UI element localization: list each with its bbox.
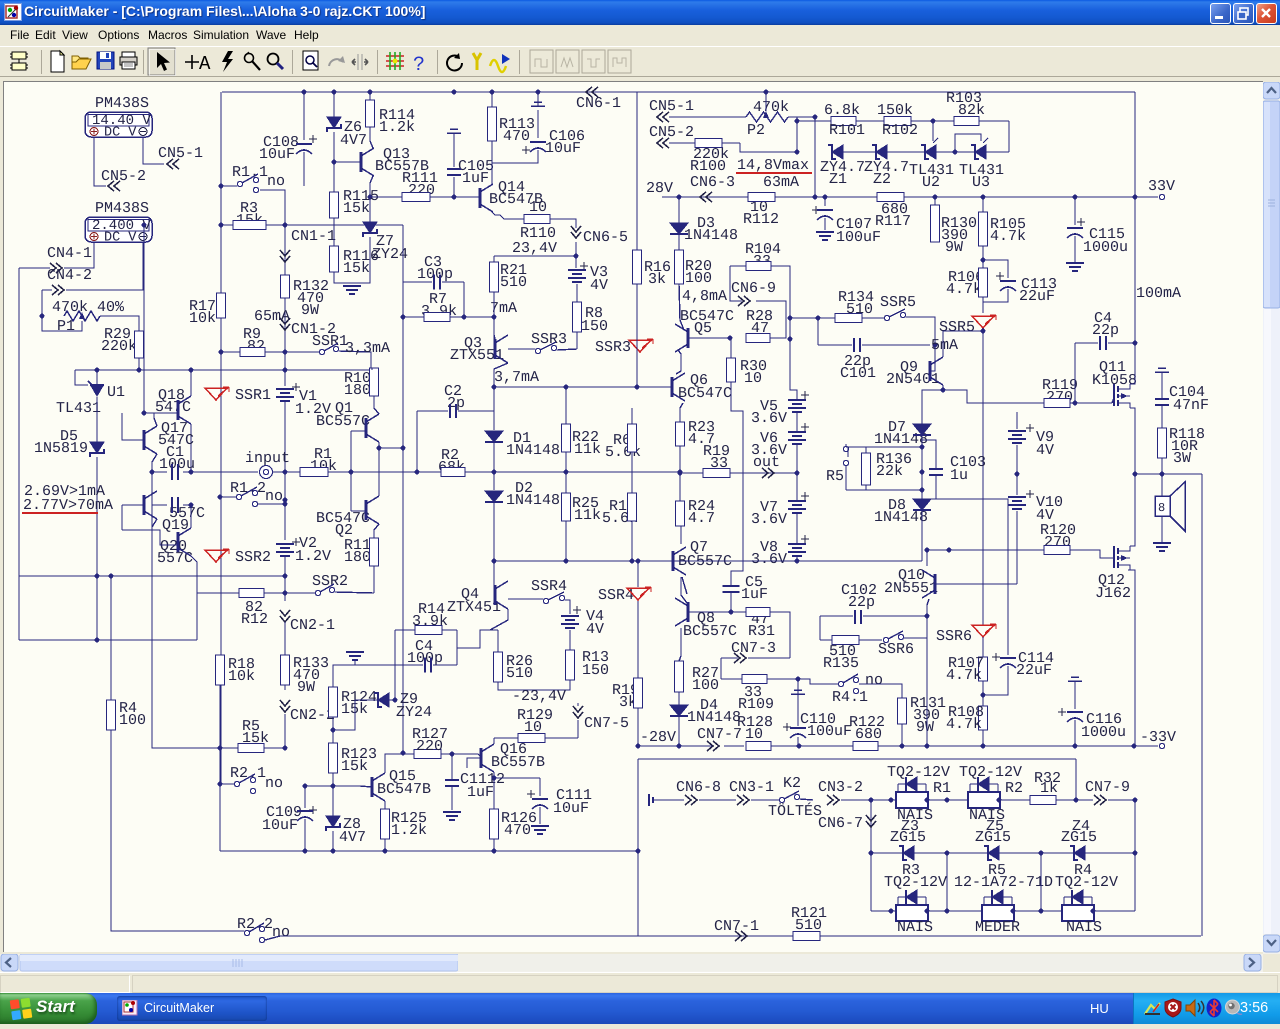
wire Z8	[332, 814, 334, 816]
wire Q16 base	[467, 758, 481, 768]
svg-text:SSR1: SSR1	[235, 387, 271, 404]
svg-text:10: 10	[744, 370, 762, 387]
wire D4 bottom	[678, 716, 680, 746]
wire meter1 left lead	[94, 137, 106, 186]
svg-text:C101: C101	[840, 365, 876, 382]
svg-text:100p: 100p	[417, 266, 453, 283]
wire Z9 right	[394, 665, 396, 700]
wire x197 down	[191, 556, 197, 593]
svg-text:R1: R1	[933, 780, 951, 797]
svg-text:BC557C: BC557C	[316, 413, 370, 430]
wire Vstack top feed	[790, 339, 797, 400]
wire R1.2	[220, 496, 236, 498]
svg-text:R2: R2	[1005, 780, 1023, 797]
svg-text:NAIS: NAIS	[897, 919, 933, 936]
svg-text:R112: R112	[743, 211, 779, 228]
svg-text:100uF: 100uF	[807, 723, 852, 740]
svg-text:100mA: 100mA	[1136, 285, 1181, 302]
svg-text:DC V: DC V	[104, 231, 137, 246]
svg-text:R2.1: R2.1	[230, 765, 266, 782]
wire R26 top	[497, 630, 499, 652]
wire Q6 emitter	[680, 403, 683, 422]
split arrows	[352, 54, 368, 70]
wire R104 right	[771, 266, 790, 339]
svg-text:DC V: DC V	[104, 126, 137, 141]
wire zener chain y152	[740, 143, 797, 152]
relay R2 coil	[968, 792, 1000, 808]
wire V2 bottom	[284, 556, 286, 576]
wire R3 junction down	[284, 225, 286, 275]
wire Q2 base	[351, 510, 366, 512]
wire R129	[494, 737, 518, 739]
wire CN4-2	[42, 289, 52, 291]
plus	[185, 55, 199, 69]
wire R118	[1161, 458, 1163, 474]
wire input-R1	[272, 471, 300, 473]
svg-text:BC547B: BC547B	[377, 781, 431, 798]
svg-text:CN5-2: CN5-2	[101, 168, 146, 185]
resistor R108	[979, 706, 988, 730]
zoom doc	[303, 51, 318, 70]
svg-text:11k: 11k	[574, 507, 601, 524]
magnifier	[268, 54, 284, 70]
svg-text:4V7: 4V7	[339, 829, 366, 846]
wire rail to U1 ref	[75, 370, 88, 385]
svg-text:3.6V: 3.6V	[751, 410, 787, 427]
svg-text:K2: K2	[783, 775, 801, 792]
wire u3 out	[986, 151, 1009, 153]
wire R109	[721, 678, 742, 680]
wire Q4 emitter	[490, 609, 508, 630]
wire Q14 collector	[491, 141, 493, 184]
svg-text:2.77V>70mA: 2.77V>70mA	[23, 497, 113, 514]
svg-text:A: A	[199, 53, 211, 75]
node R107-R108	[981, 693, 986, 698]
probe	[245, 52, 261, 70]
wire SSR5 sw right	[906, 317, 935, 345]
svg-text:U3: U3	[972, 174, 990, 191]
wire Q10 emitter	[927, 599, 929, 616]
wire R27-D4	[678, 692, 680, 705]
cap sym CN6-8	[649, 794, 653, 806]
relay R3 coil	[896, 905, 928, 921]
svg-text:1uF: 1uF	[462, 170, 489, 187]
wire R104 left	[730, 265, 746, 267]
wire Q14 emitter / R110	[492, 212, 500, 215]
svg-text:no: no	[865, 672, 883, 689]
wire bottom-left horizontal	[19, 639, 197, 641]
svg-text:4.7: 4.7	[688, 510, 715, 527]
wire Q7 collector	[680, 526, 681, 544]
earth C106	[531, 102, 545, 106]
wire speaker node	[1135, 473, 1202, 475]
svg-text:510: 510	[500, 274, 527, 291]
wire R22	[565, 388, 567, 424]
svg-text:CN6-7: CN6-7	[818, 815, 863, 832]
svg-text:no: no	[265, 488, 283, 505]
wire CN2-2 down	[284, 714, 286, 744]
wave/play	[490, 54, 510, 72]
svg-text:Q5: Q5	[694, 320, 712, 337]
svg-text:9W: 9W	[297, 679, 315, 696]
wire C2	[417, 410, 448, 412]
svg-text:8: 8	[1158, 501, 1165, 515]
wire SSR4red col	[637, 561, 639, 587]
new	[51, 51, 64, 72]
svg-text:CN6-8: CN6-8	[676, 779, 721, 796]
wire R124-R123	[332, 717, 334, 743]
wire R15 bottom	[631, 521, 633, 561]
wire R20 bottom	[679, 284, 684, 330]
svg-text:CN5-2: CN5-2	[649, 124, 694, 141]
wire R5b	[220, 744, 238, 748]
taskbar	[0, 993, 1280, 1024]
wire Q20 lines	[190, 505, 192, 528]
wire P2 right	[788, 116, 815, 118]
svg-text:470: 470	[503, 128, 530, 145]
svg-text:Z2: Z2	[873, 171, 891, 188]
wire feedback vertical x403	[402, 225, 404, 282]
svg-text:R109: R109	[738, 696, 774, 713]
svg-text:TQ2-12V: TQ2-12V	[887, 764, 950, 781]
wire row2	[871, 852, 1135, 854]
wire u2-u3	[936, 151, 975, 153]
svg-text:R5: R5	[826, 468, 844, 485]
svg-text:4V: 4V	[586, 621, 604, 638]
svg-text:TQ2-12V: TQ2-12V	[959, 764, 1022, 781]
svg-text:15k: 15k	[341, 758, 368, 775]
wire R1-R2	[328, 471, 441, 473]
wire R16 to Q6 base	[636, 284, 638, 387]
wire P1 to R29	[100, 316, 139, 331]
wire V9	[1016, 412, 1018, 429]
wire Q4 base sw	[508, 598, 543, 600]
svg-text:Z1: Z1	[829, 171, 847, 188]
wire Q7 base	[640, 560, 673, 562]
svg-text:100: 100	[119, 712, 146, 729]
svg-text:470k 40%: 470k 40%	[52, 299, 125, 316]
svg-text:3.6V: 3.6V	[751, 511, 787, 528]
svg-text:1u: 1u	[950, 467, 968, 484]
svg-text:10: 10	[745, 726, 763, 743]
svg-text:4.7k: 4.7k	[946, 667, 982, 684]
wire R7	[403, 316, 424, 318]
wire Z9	[333, 700, 378, 730]
wire top right corner	[1134, 92, 1136, 197]
wire row3	[871, 910, 896, 912]
svg-text:15k: 15k	[343, 260, 370, 277]
wire R132 column	[284, 298, 286, 352]
wire C1112	[451, 754, 453, 779]
wire V7V8	[796, 473, 798, 501]
wire R31 right	[770, 612, 790, 658]
svg-text:3k: 3k	[648, 271, 666, 288]
svg-text:no: no	[265, 775, 283, 792]
wire row1 d	[841, 799, 896, 801]
wire row1 g	[1056, 799, 1093, 801]
wire left column to R5 row	[152, 472, 220, 748]
wire C111 link	[494, 777, 540, 779]
meter PM438S #1	[85, 112, 152, 137]
wire R7/C3 tap	[492, 315, 497, 320]
relay R3 diode	[906, 890, 917, 904]
svg-text:BC557C: BC557C	[683, 623, 737, 640]
wire Q10 collector	[926, 550, 928, 566]
wire -28V rail	[637, 745, 712, 747]
wire R131	[901, 724, 903, 746]
wire V5V6	[796, 412, 798, 432]
svg-text:1uF: 1uF	[741, 586, 768, 603]
wire Q2 collector	[378, 448, 380, 496]
svg-text:150: 150	[581, 318, 608, 335]
vertical scrollbar	[1263, 82, 1280, 954]
svg-text:1000u: 1000u	[1083, 239, 1128, 256]
wire R106 to SSR5red	[982, 297, 984, 313]
svg-text:33V: 33V	[1148, 178, 1175, 195]
svg-text:4,8mA: 4,8mA	[682, 288, 727, 305]
svg-text:63mA: 63mA	[763, 174, 799, 191]
wire Q1 base	[351, 430, 366, 432]
ground Q13 cell	[343, 286, 361, 294]
wire V4 bottom	[569, 630, 571, 650]
earth C116	[1068, 677, 1082, 681]
relay R4 coil	[1062, 905, 1094, 921]
wire C4	[1075, 342, 1098, 344]
wire R30	[730, 338, 732, 358]
wire 33V vertical	[1134, 197, 1136, 343]
wires colorful	[386, 52, 404, 70]
svg-text:1uF: 1uF	[467, 784, 494, 801]
open	[72, 56, 91, 69]
svg-text:SSR2: SSR2	[235, 549, 271, 566]
wire R127	[385, 754, 414, 773]
wire speaker	[1161, 474, 1163, 496]
wire Q18 base	[144, 412, 178, 414]
svg-text:10uF: 10uF	[553, 800, 589, 817]
wire R100-P2	[722, 142, 740, 144]
svg-text:CN2-1: CN2-1	[290, 617, 335, 634]
wire CN6-9 link	[730, 266, 742, 301]
svg-text:SSR6: SSR6	[936, 628, 972, 645]
wire 33V stub	[1135, 196, 1158, 198]
svg-text:1000u: 1000u	[1081, 724, 1126, 741]
led SSR1 red	[205, 388, 227, 400]
wire Q1Q2 emitter join	[379, 447, 403, 449]
svg-text:R2.2: R2.2	[237, 916, 273, 933]
rail audio y472	[299, 471, 301, 473]
wire R21 bottom	[493, 292, 495, 341]
svg-text:BC547C: BC547C	[678, 385, 732, 402]
wire Q8 base	[689, 611, 746, 613]
wire CN6-5 down	[575, 242, 577, 256]
wire C3	[403, 281, 432, 283]
relay R5 coil	[982, 905, 1014, 921]
svg-text:CN7-7: CN7-7	[697, 726, 742, 743]
wire R18	[219, 685, 221, 744]
svg-text:3.6V: 3.6V	[751, 551, 787, 568]
wire row1 h	[1108, 799, 1135, 801]
wire Q19 base	[122, 504, 144, 506]
svg-text:CN6-1: CN6-1	[576, 95, 621, 112]
wire z2-u2	[887, 151, 925, 153]
svg-text:4V: 4V	[590, 277, 608, 294]
wire K2 vertical	[870, 800, 872, 911]
wire row1 b	[751, 799, 779, 801]
svg-text:9W: 9W	[945, 239, 963, 256]
wire CN5-1	[669, 116, 746, 118]
horizontal scrollbar	[0, 954, 1263, 972]
wire CN5-2	[669, 142, 695, 144]
undo circle	[447, 53, 462, 71]
svg-text:R100: R100	[690, 158, 726, 175]
svg-text:14,8Vmax: 14,8Vmax	[737, 157, 809, 174]
svg-text:150: 150	[582, 662, 609, 679]
svg-text:SSR5: SSR5	[880, 294, 916, 311]
wire relay loop left	[638, 758, 1076, 760]
svg-text:CN5-1: CN5-1	[158, 145, 203, 162]
wire SSR6 sw	[904, 637, 927, 639]
wire D2	[493, 472, 495, 490]
svg-text:ZG15: ZG15	[1061, 829, 1097, 846]
svg-text:TÖLTÉS: TÖLTÉS	[768, 802, 822, 820]
wire R7 feedback join	[402, 744, 404, 753]
svg-text:CN3-2: CN3-2	[818, 779, 863, 796]
wire loop to Q4	[457, 630, 490, 648]
svg-text:CN3-1: CN3-1	[729, 779, 774, 796]
wire R4.1 feed	[798, 679, 818, 684]
svg-text:MEDER: MEDER	[975, 919, 1020, 936]
svg-text:28V: 28V	[646, 180, 673, 197]
wire 23,4V node	[494, 255, 576, 257]
svg-text:1N4148: 1N4148	[684, 227, 738, 244]
relay R5 diode	[992, 890, 1003, 904]
wire Q16 emitter	[493, 772, 495, 809]
wire R126 bottom	[493, 839, 495, 851]
svg-text:10uF: 10uF	[545, 140, 581, 157]
wire R135	[820, 639, 832, 641]
svg-text:R117: R117	[875, 213, 911, 230]
wire V1 bottom	[284, 402, 286, 540]
wire Q9 base	[930, 345, 935, 371]
wire row1 a	[699, 799, 736, 801]
wire to Q19 block	[196, 593, 198, 640]
wire rail bottom	[265, 936, 1201, 940]
wire row2-row3 links	[946, 853, 948, 911]
svg-text:CN6-9: CN6-9	[731, 280, 776, 297]
wire loop left down	[394, 664, 396, 666]
wire R2 right	[465, 471, 680, 473]
svg-text:U2: U2	[922, 174, 940, 191]
wire R4.1	[818, 683, 838, 685]
wire U3 ref loop	[955, 134, 981, 152]
rail y561	[494, 560, 640, 562]
wire R4 bottom	[111, 730, 244, 931]
resistor R109	[742, 675, 767, 684]
cursor btn pressed	[148, 48, 175, 75]
svg-text:1.2k: 1.2k	[391, 822, 427, 839]
wire CN4-1	[19, 267, 50, 269]
wire Q10 emitter to rail	[926, 616, 928, 746]
svg-text:ZTX451: ZTX451	[447, 599, 501, 616]
wire R134	[790, 317, 835, 319]
wire D7-D8	[921, 435, 923, 499]
ground speaker	[1153, 543, 1171, 551]
wire Q3 collector	[494, 363, 508, 387]
wire R4 column	[110, 576, 112, 700]
wire R5R136	[845, 444, 847, 447]
wire Q13 base	[334, 161, 360, 163]
svg-text:180: 180	[344, 549, 371, 566]
svg-text:1N4148: 1N4148	[506, 442, 560, 459]
wire Q19 emitter	[152, 519, 157, 530]
window chrome	[0, 0, 1280, 25]
svg-text:3W: 3W	[1173, 450, 1191, 467]
svg-text:12-1A72-71D: 12-1A72-71D	[954, 874, 1053, 891]
svg-text:47nF: 47nF	[1173, 397, 1209, 414]
wire row1 f	[1000, 799, 1030, 801]
relay R1 coil	[896, 792, 928, 808]
svg-text:22k: 22k	[876, 463, 903, 480]
wire Q12	[1130, 474, 1135, 546]
wire R14C4 loop	[395, 629, 415, 631]
rail top y92	[222, 91, 1135, 93]
wire R1.1	[221, 185, 237, 187]
wire R116 bottom	[334, 272, 352, 283]
wire R125 bottom	[384, 839, 386, 851]
svg-text:CN7-3: CN7-3	[731, 640, 776, 657]
svg-text:CN1-1: CN1-1	[291, 228, 336, 245]
svg-text:10uF: 10uF	[262, 817, 298, 834]
svg-text:no: no	[267, 173, 285, 190]
wire C103	[922, 440, 936, 448]
svg-text:-23,4V: -23,4V	[512, 688, 566, 705]
wire D1	[493, 387, 495, 430]
wire Q17 base	[122, 413, 144, 440]
wire Q8 collector	[679, 628, 681, 661]
wire R11	[374, 524, 379, 538]
wire Q4 collector	[494, 561, 495, 589]
chip icon	[10, 52, 28, 70]
ground mid	[346, 652, 364, 660]
wire R13 bottom	[498, 680, 570, 690]
wire R114	[369, 92, 371, 100]
rotate arrow grey	[329, 56, 345, 66]
wire Q6 base	[637, 386, 672, 388]
svg-text:NAIS: NAIS	[1066, 919, 1102, 936]
wire Q15 emitter	[384, 801, 386, 809]
wire R17	[220, 318, 222, 782]
svg-text:100: 100	[685, 270, 712, 287]
svg-text:U1: U1	[107, 384, 125, 401]
svg-text:15k: 15k	[343, 200, 370, 217]
led SSR2 red	[205, 550, 227, 562]
speaker	[1155, 496, 1170, 516]
svg-text:R1.2: R1.2	[230, 480, 266, 497]
wire R3	[221, 224, 233, 226]
wire R23	[679, 446, 681, 501]
svg-text:R31: R31	[748, 623, 775, 640]
wire U2 ref	[932, 121, 934, 141]
resistor R127	[414, 750, 441, 759]
svg-text:CN6-5: CN6-5	[583, 229, 628, 246]
wire SSR5red down	[982, 328, 984, 625]
earth C110	[791, 690, 805, 694]
svg-text:R4.1: R4.1	[832, 689, 868, 706]
wire Q10 base	[936, 583, 1017, 585]
svg-text:4.7k: 4.7k	[990, 228, 1026, 245]
wire row1 c	[800, 799, 813, 800]
wire Q7-Q8 emitter	[681, 577, 687, 603]
